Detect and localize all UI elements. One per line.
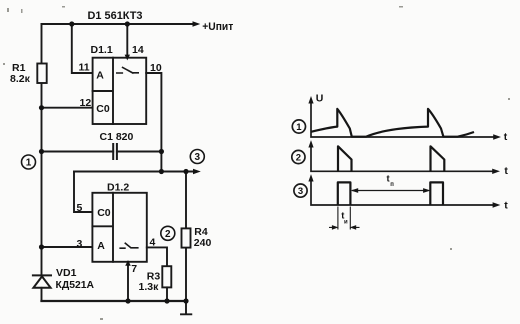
svg-text:t: t (504, 165, 508, 177)
svg-text:3: 3 (77, 238, 83, 250)
svg-text:t: t (504, 131, 508, 143)
svg-text:C0: C0 (97, 207, 111, 219)
svg-text:КД521А: КД521А (56, 279, 95, 291)
svg-text:7: 7 (131, 263, 137, 275)
svg-text:C0: C0 (96, 103, 110, 115)
svg-text:D1 561КТ3: D1 561КТ3 (88, 10, 143, 22)
svg-text:240: 240 (194, 237, 212, 249)
svg-text:1: 1 (26, 158, 32, 169)
svg-text:2: 2 (165, 229, 171, 240)
svg-text:C1 820: C1 820 (100, 131, 134, 143)
svg-text:2: 2 (296, 153, 301, 164)
svg-text:VD1: VD1 (56, 267, 77, 279)
svg-text:1.3к: 1.3к (139, 281, 160, 293)
svg-text:A: A (96, 70, 104, 82)
svg-text:t: t (504, 199, 508, 211)
svg-text:A: A (97, 240, 105, 252)
svg-text:3: 3 (195, 152, 201, 163)
svg-text:11: 11 (79, 61, 90, 73)
svg-text:14: 14 (132, 44, 144, 56)
svg-text:+Uпит: +Uпит (202, 21, 234, 33)
svg-text:п: п (390, 182, 394, 188)
svg-text:3: 3 (298, 186, 303, 197)
svg-text:D1.2: D1.2 (107, 182, 129, 194)
svg-text:5: 5 (77, 202, 83, 214)
svg-text:1: 1 (296, 122, 302, 133)
svg-text:D1.1: D1.1 (91, 44, 113, 56)
svg-text:4: 4 (150, 237, 156, 249)
svg-text:и: и (344, 219, 348, 225)
svg-text:U: U (316, 92, 324, 104)
svg-text:10: 10 (150, 62, 162, 74)
svg-text:12: 12 (80, 97, 92, 109)
svg-text:8.2к: 8.2к (10, 73, 31, 85)
